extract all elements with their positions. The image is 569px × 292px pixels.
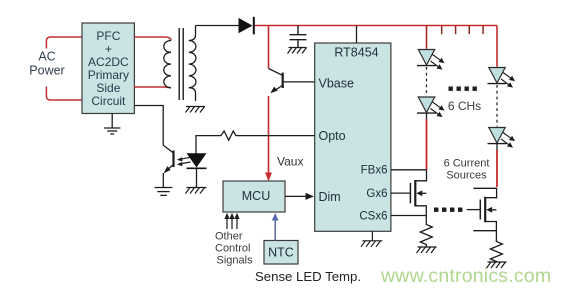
svg-text:Vaux: Vaux: [277, 154, 303, 168]
svg-text:Sense LED Temp.: Sense LED Temp.: [255, 269, 361, 284]
transistor Q1: [269, 69, 283, 92]
wire PFC to transformer primary bottom (red): [134, 86, 171, 89]
svg-text:Side: Side: [96, 81, 120, 95]
svg-text:6 CHs: 6 CHs: [448, 99, 481, 113]
svg-text:AC: AC: [38, 50, 55, 64]
LED string 1 feed (red): [426, 26, 428, 49]
node Other Control Signals label: [215, 231, 253, 267]
wire LED string 1 to FB node (red): [426, 113, 428, 119]
svg-text:CSx6: CSx6: [359, 210, 387, 222]
wire MCU Dim output arrow: [285, 195, 307, 197]
rail ticks to other channels: [442, 26, 483, 34]
node dots other channel LEDs: [449, 87, 477, 91]
wire Q1 emitter to MCU, Vaux (red): [265, 173, 272, 182]
svg-text:Opto: Opto: [319, 129, 346, 143]
wire PFC to optocoupler phototransistor: [134, 106, 163, 146]
svg-text:Signals: Signals: [217, 255, 254, 267]
resistor R2 (CS sense): [420, 216, 432, 248]
wire AC source bracket (red): [46, 37, 82, 100]
svg-text:6 Current: 6 Current: [444, 158, 490, 170]
ground under R3 (hatched): [487, 262, 507, 268]
LED D3: [417, 97, 445, 117]
svg-text:AC2DC: AC2DC: [88, 55, 129, 69]
transformer T1 secondary winding: [189, 26, 196, 102]
V+ rail (red): [255, 25, 497, 27]
ground under PFC block: [104, 114, 120, 135]
MOSFET M2: [467, 188, 497, 241]
svg-text:PFC: PFC: [96, 29, 120, 43]
svg-text:Gx6: Gx6: [366, 188, 387, 200]
svg-text:MCU: MCU: [242, 189, 270, 203]
svg-text:+: +: [105, 42, 112, 56]
svg-text:Control: Control: [215, 243, 250, 255]
svg-text:www.cntronics.com: www.cntronics.com: [380, 265, 551, 287]
wire dashed LED string 1: [426, 67, 428, 96]
svg-text:Other: Other: [215, 231, 243, 243]
wire dashed LED string 2: [496, 85, 498, 127]
LED D2: [417, 50, 445, 70]
wire transformer secondary to diode: [196, 25, 239, 27]
optocoupler light arrows: [180, 157, 191, 164]
ground under RT8454 (hatched): [361, 231, 382, 247]
wire Q1 base to Vbase pin: [284, 81, 315, 83]
node 6 Current Sources label: [444, 158, 490, 182]
block NTC: [264, 241, 298, 265]
resistor R1 in opto line: [196, 131, 315, 154]
optocoupler U2 phototransistor: [163, 145, 173, 171]
svg-text:Sources: Sources: [446, 170, 487, 182]
svg-text:Dim: Dim: [319, 190, 341, 204]
MOSFET M1: [410, 170, 426, 216]
control signal arrows into MCU: [227, 216, 237, 229]
wire LED string 2 to M2 drain (red): [496, 144, 498, 150]
svg-text:Vbase: Vbase: [319, 77, 354, 91]
svg-text:NTC: NTC: [268, 246, 294, 260]
block PFC + AC2DC Primary Side Circuit: [82, 23, 134, 114]
svg-text:Primary: Primary: [88, 68, 129, 82]
svg-text:Power: Power: [29, 64, 64, 78]
optocoupler U2 LED: [187, 153, 207, 167]
svg-text:Circuit: Circuit: [91, 94, 126, 108]
svg-text:FBx6: FBx6: [361, 165, 388, 177]
ground under phototransistor: [155, 188, 173, 196]
diode D1: [239, 18, 253, 33]
wire rail to Q1 collector (red): [268, 26, 270, 181]
LED string 2 feed (red): [496, 26, 498, 67]
wire Gx6: [391, 192, 410, 194]
ground under opto LED (hatched): [186, 188, 207, 194]
wire rail to RT8454 VIN: [356, 26, 358, 44]
transformer T1 core: [179, 28, 183, 100]
node AC Power label: [29, 50, 64, 78]
ground under capacitor (hatched): [288, 48, 307, 54]
block MCU: [223, 181, 285, 212]
transformer T1 primary winding: [164, 40, 171, 87]
resistor R3: [490, 240, 502, 263]
ground under transformer secondary (hatched): [186, 107, 206, 113]
wire CSx6: [391, 215, 426, 217]
capacitor C1: [290, 26, 307, 48]
ground under R2 (hatched): [417, 247, 437, 253]
wire NTC to MCU arrow (blue): [274, 220, 276, 241]
wire FBx6: [391, 169, 427, 171]
IC U1 RT8454: [315, 43, 391, 231]
LED D5: [488, 128, 516, 148]
LED D4: [488, 68, 516, 88]
node dots other channel mosfets: [434, 208, 462, 212]
wire PFC to transformer primary top (red): [134, 37, 171, 41]
svg-text:RT8454: RT8454: [334, 46, 378, 60]
